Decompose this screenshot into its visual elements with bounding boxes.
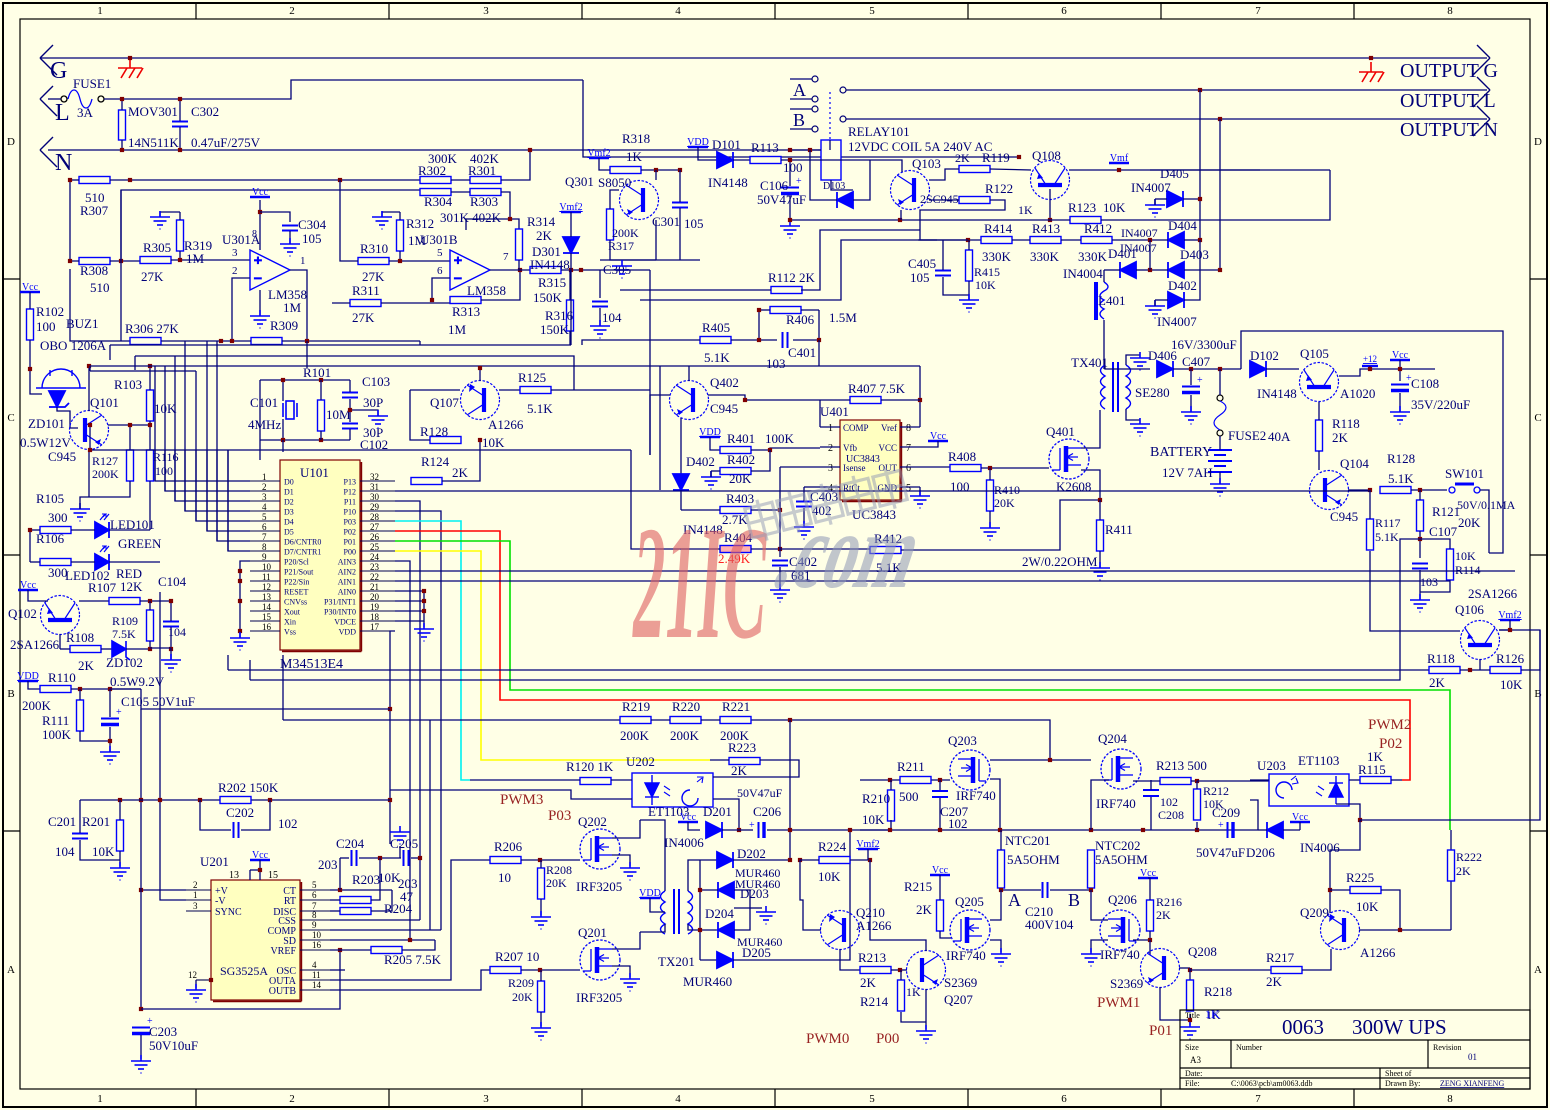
pin 29 U101 P10: [360, 510, 395, 512]
wire U101 D1: [165, 450, 250, 491]
svg-text:C108: C108: [1411, 376, 1439, 391]
wire C305 down: [599, 308, 601, 326]
wire switch B output = OUTPUT N: [846, 118, 1487, 120]
wire R112 left: [620, 289, 771, 291]
wire R410 top: [989, 468, 991, 480]
resistor R109: [147, 610, 154, 641]
capacitor C301: [672, 203, 688, 208]
svg-text:D7/CNTR1: D7/CNTR1: [284, 548, 321, 557]
wire to ground: [170, 648, 172, 660]
diode D201: [706, 822, 722, 838]
svg-text:Q203: Q203: [948, 733, 977, 748]
wire R222: [1450, 881, 1452, 930]
wire R213 right: [1191, 780, 1197, 782]
svg-text:R115: R115: [1358, 762, 1386, 777]
svg-text:21: 21: [370, 582, 379, 592]
svg-text:27K: 27K: [141, 269, 164, 284]
svg-text:R312: R312: [406, 216, 434, 231]
ground R208: [531, 911, 551, 929]
wire D103 anode: [810, 150, 837, 200]
wire rail y820: [1360, 630, 1540, 820]
wire Q301 collector: [655, 170, 657, 180]
wire bus risers above U101: [154, 366, 156, 481]
wire R312 gnd link: [382, 212, 400, 217]
resistor R214: [898, 980, 905, 1011]
junction dots: [1189, 367, 1222, 371]
wire R125 out: [551, 389, 650, 391]
svg-text:10M: 10M: [326, 407, 351, 422]
wire U301B inverting: [432, 278, 450, 300]
svg-text:B: B: [793, 110, 805, 130]
wire R118-R126: [1460, 669, 1490, 671]
wire R103 bottom: [149, 421, 151, 450]
resistor R401: [720, 447, 751, 454]
wire U203 right to R115: [1349, 779, 1360, 781]
junction dots: [698, 888, 702, 932]
wire VDD pin17: [390, 631, 395, 844]
wire U101 D0: [155, 450, 250, 481]
transistor Q210: [821, 911, 860, 950]
svg-text:5: 5: [312, 880, 317, 890]
MOSFET Q205: [950, 910, 990, 950]
wire R204 up: [371, 890, 392, 911]
pin 5 U101 D4: [250, 520, 280, 522]
ground U201 pin12: [186, 984, 206, 1002]
resistor R213b: [1160, 778, 1191, 785]
wire C204 into CT: [339, 858, 341, 890]
svg-text:Q103: Q103: [912, 156, 941, 171]
wire D205 anode lead: [700, 959, 717, 961]
wire +V to C203 rail: [141, 889, 186, 891]
svg-text:AIN3: AIN3: [338, 558, 356, 567]
svg-text:12VDC COIL 5A 240V AC: 12VDC COIL 5A 240V AC: [848, 139, 992, 154]
capacitor C202: [234, 822, 239, 838]
svg-text:10K: 10K: [1500, 677, 1523, 692]
svg-text:D4: D4: [284, 518, 294, 527]
wire crystal bottom: [282, 419, 284, 440]
wire U101 D5: [207, 450, 250, 531]
svg-text:Q202: Q202: [578, 814, 607, 829]
junction dots: [281, 378, 352, 442]
svg-text:32: 32: [370, 472, 379, 482]
wire Q102 to R107: [79, 600, 109, 602]
wire R403 right: [751, 509, 780, 511]
svg-text:R402: R402: [727, 452, 755, 467]
svg-text:R415: R415: [974, 265, 1000, 279]
wire Q210 to R213: [840, 949, 860, 970]
wire VDD rail right: [141, 689, 390, 709]
junction dots: [120, 97, 124, 152]
resistor R410: [987, 480, 994, 511]
wire U401 pin5 GND: [919, 487, 921, 496]
wire osc to U101: [259, 380, 261, 460]
svg-text:IN4148: IN4148: [708, 175, 748, 190]
wire Q201 source: [612, 966, 630, 977]
wire R121 top: [1419, 490, 1421, 500]
ground under R415: [959, 294, 979, 312]
wire TX201 right top: [688, 860, 700, 891]
svg-text:10K: 10K: [482, 435, 505, 450]
wire Q203 drain: [990, 779, 1000, 830]
wire R312 bottom: [399, 251, 401, 261]
wire U301B output: [490, 269, 530, 271]
ground under C402: [770, 584, 790, 602]
wire R101 bottom: [320, 431, 322, 440]
svg-text:6: 6: [906, 463, 911, 474]
resistor R120: [580, 778, 611, 785]
svg-text:Isense: Isense: [843, 463, 866, 473]
wire osc bottom rail: [260, 439, 350, 441]
resistor R216: [1147, 900, 1154, 931]
svg-text:400V104: 400V104: [1025, 917, 1074, 932]
transistor Q102: [41, 596, 80, 635]
wire rail y455 to Q402: [650, 395, 670, 455]
svg-text:P11: P11: [344, 498, 356, 507]
wire R308 to R305: [110, 260, 140, 262]
resistor R406: [770, 307, 801, 314]
wire R407 right: [881, 399, 920, 401]
wire U101 D3: [185, 450, 250, 511]
svg-text:2K: 2K: [1156, 908, 1171, 922]
svg-text:PWM3: PWM3: [500, 792, 543, 808]
resistor R206: [490, 857, 521, 864]
svg-text:C203: C203: [149, 1024, 177, 1039]
pin 7 U101 D6/CNTR0: [250, 540, 280, 542]
resistor R218: [1187, 980, 1194, 1011]
ground Q206: [1081, 948, 1101, 966]
junction dots: [788, 148, 812, 152]
svg-text:R315: R315: [538, 275, 566, 290]
wire Vcc to R215: [939, 875, 941, 900]
wire R406 left: [759, 309, 770, 311]
svg-text:100: 100: [155, 464, 173, 478]
pin 7 U201 DISC: [300, 910, 330, 912]
svg-text:6: 6: [312, 890, 317, 900]
wire Vcc to R216: [1148, 878, 1150, 900]
svg-text:20: 20: [370, 592, 380, 602]
svg-text:R122: R122: [985, 181, 1013, 196]
svg-text:D5: D5: [284, 528, 294, 537]
svg-text:A: A: [793, 80, 806, 100]
svg-text:C105 50V1uF: C105 50V1uF: [121, 694, 195, 709]
svg-text:P02: P02: [344, 528, 356, 537]
svg-text:R119: R119: [982, 150, 1010, 165]
wire Vmf2 stub: [867, 849, 869, 860]
wire COMP pin: [330, 929, 441, 931]
svg-text:2K: 2K: [916, 902, 933, 917]
wire Q206 source gnd: [1091, 940, 1108, 952]
wire battery top: [1219, 436, 1221, 450]
resistor R202: [220, 797, 251, 804]
wire net G: [40, 57, 1487, 59]
wire R406/R405 left link: [758, 310, 760, 340]
svg-text:R406: R406: [786, 312, 815, 327]
wire C407 top: [1190, 369, 1192, 385]
svg-text:1M: 1M: [186, 251, 205, 266]
svg-text:+: +: [796, 176, 802, 187]
wire Q402 to U401 pin1 row: [708, 395, 820, 400]
svg-text:R307: R307: [80, 203, 109, 218]
resistor R201: [117, 820, 124, 851]
resistor R312: [397, 220, 404, 251]
svg-text:R213 500: R213 500: [1156, 758, 1207, 773]
junction dots: [966, 238, 1152, 272]
wire R317 top: [609, 200, 611, 209]
svg-text:D204: D204: [705, 906, 734, 921]
wire R303 to opamp power: [466, 219, 519, 230]
junction dots: [848, 828, 1199, 832]
svg-text:VDCE: VDCE: [334, 618, 356, 627]
capacitor C210 bridge: [1001, 889, 1041, 891]
wire PWM3/P03 line: [390, 790, 620, 799]
svg-text:C405: C405: [908, 256, 936, 271]
wire C107 bottom: [1419, 570, 1421, 600]
svg-text:R305: R305: [143, 240, 171, 255]
wire R302-R301: [451, 179, 470, 181]
wire R124 to R128 node: [442, 440, 480, 481]
svg-text:7: 7: [262, 532, 267, 542]
wire D203: [700, 889, 718, 891]
pin 8 U201 CSS: [300, 919, 330, 921]
wire relay top: [829, 140, 831, 150]
svg-text:301K 402K: 301K 402K: [440, 210, 502, 225]
svg-text:IN4007: IN4007: [1157, 314, 1197, 329]
wire Q106 to Vmf2 node: [1499, 629, 1510, 631]
wire R109 bottom: [149, 641, 151, 648]
svg-text:GREEN: GREEN: [118, 536, 162, 551]
resistor R402: [720, 468, 751, 475]
earth on G line (left): [118, 58, 143, 78]
buzzer BUZ1: [36, 369, 86, 388]
wire x141 vertical: [140, 709, 142, 1009]
resistor R412b: [870, 547, 901, 554]
svg-text:IN4148: IN4148: [1257, 386, 1297, 401]
ground Q202: [620, 862, 640, 880]
svg-text:100: 100: [36, 319, 56, 334]
wire R120 to U202 pin1: [611, 779, 632, 781]
wire R311 lead: [332, 302, 350, 304]
wire R221 to gate junction: [751, 720, 1050, 760]
wire R106 left: [30, 529, 40, 531]
wire bottom rail to VREF: [141, 950, 340, 1009]
svg-text:C101: C101: [250, 395, 278, 410]
wire TX201 left top: [640, 820, 665, 891]
svg-text:R225: R225: [1346, 870, 1374, 885]
svg-text:C208: C208: [1158, 808, 1184, 822]
svg-text:R411: R411: [1105, 522, 1133, 537]
LED LED101: [95, 514, 109, 538]
diode D402 (IN4148): [673, 474, 689, 490]
wire R216 node down: [1149, 940, 1151, 955]
svg-text:C201: C201: [48, 814, 76, 829]
wire U401 right pin 5: [900, 486, 920, 488]
svg-text:510: 510: [90, 280, 110, 295]
svg-text:20K: 20K: [1458, 515, 1481, 530]
resistor R317: [607, 209, 614, 240]
colored wire P03 cyan: [395, 521, 470, 780]
capacitor C203: [132, 1028, 150, 1034]
svg-text:PWM1: PWM1: [1097, 995, 1140, 1011]
wire Q101 emitter down: [88, 449, 90, 497]
wire rail y830: [860, 829, 1258, 831]
wire R201 bottom: [119, 851, 121, 866]
wire ZD101 to Q101 base: [57, 407, 78, 428]
svg-text:OUTPUT N: OUTPUT N: [1400, 119, 1498, 141]
wire LED102 out: [109, 561, 160, 563]
wire R224 node to Q210 base: [800, 860, 821, 930]
svg-text:4MHz: 4MHz: [248, 417, 281, 432]
wire R312 top: [399, 212, 401, 220]
wire rectifier left rail: [699, 860, 701, 960]
transformer TX201: [661, 889, 693, 934]
wire C202 right: [241, 800, 270, 830]
svg-text:COMP: COMP: [843, 423, 869, 433]
wire Q204 source: [1091, 780, 1109, 830]
transistor Q301: [620, 181, 659, 220]
wire R408 to Q401 gate: [981, 467, 1049, 469]
svg-text:R405: R405: [702, 320, 730, 335]
svg-text:N: N: [55, 150, 72, 176]
svg-text:2K: 2K: [731, 763, 748, 778]
svg-text:R222: R222: [1456, 850, 1482, 864]
svg-text:6: 6: [1061, 5, 1067, 17]
wire U301A inverting input: [232, 278, 250, 341]
MOSFET Q202: [580, 829, 620, 869]
svg-text:27: 27: [370, 522, 380, 532]
wire Vmf2 stub: [1509, 620, 1511, 630]
wire FUSE2 top: [1219, 369, 1221, 395]
svg-text:D402: D402: [1168, 278, 1197, 293]
pin 22 U101 AIN1: [360, 580, 395, 582]
wire C201 bottom: [80, 840, 120, 860]
capacitor C302: [172, 122, 188, 127]
svg-text:4: 4: [675, 1093, 681, 1105]
wire left column: [70, 180, 79, 261]
wire D405 cathode: [1183, 198, 1200, 200]
svg-text:150K: 150K: [533, 290, 563, 305]
svg-text:C206: C206: [753, 804, 782, 819]
pin 6 U201 RT: [300, 899, 330, 901]
wire U301A pin4 ground: [259, 290, 261, 316]
svg-text:P13: P13: [344, 478, 356, 487]
svg-text:C209: C209: [1212, 805, 1240, 820]
junction dots: [219, 339, 309, 343]
ground U101 Vss: [230, 632, 250, 650]
svg-text:+12: +12: [1363, 354, 1377, 364]
wire -V vertical: [160, 592, 186, 900]
wire D301 bottom: [570, 253, 572, 270]
wire D404 to node: [1184, 239, 1200, 241]
resistor R219: [620, 717, 651, 724]
svg-text:S8050: S8050: [598, 175, 631, 190]
svg-text:A: A: [7, 964, 15, 976]
wire Q208 emitter: [1160, 987, 1190, 1020]
pin 30 U101 P11: [360, 500, 395, 502]
svg-text:330K: 330K: [1078, 249, 1108, 264]
wire Q207 collector up: [870, 860, 926, 951]
wire C401 right: [793, 339, 819, 341]
capacitor C407: [1182, 387, 1200, 393]
svg-text:C104: C104: [158, 574, 187, 589]
svg-text:P31/INT1: P31/INT1: [324, 598, 356, 607]
svg-text:IN4007: IN4007: [1121, 226, 1158, 240]
resistor R403: [720, 507, 751, 514]
svg-text:R309: R309: [270, 318, 298, 333]
wire R404 left: [690, 548, 720, 550]
resistor R412: [1081, 237, 1112, 244]
svg-text:Q107: Q107: [430, 395, 459, 410]
svg-text:8: 8: [252, 229, 257, 240]
wire CSS pin: [330, 919, 420, 921]
svg-text:Vref: Vref: [881, 423, 897, 433]
svg-text:7: 7: [1255, 1093, 1261, 1105]
resistor R107: [109, 598, 140, 605]
wire R212 bottom: [1196, 822, 1198, 830]
colored wire P02 red: [395, 531, 1410, 780]
diode D402: [1168, 292, 1184, 308]
wire Q401 source: [1081, 470, 1100, 499]
capacitor C205: [404, 850, 409, 866]
wire U202 pin2 from P03: [620, 798, 632, 800]
svg-text:R410: R410: [994, 483, 1020, 497]
wire Q207 emitter: [925, 989, 927, 1029]
transistor Q402: [670, 381, 709, 420]
pin 4 U201 OSC: [300, 969, 330, 971]
svg-text:R211: R211: [897, 759, 925, 774]
transistor Q101: [70, 411, 109, 450]
svg-text:40A: 40A: [1268, 429, 1291, 444]
junction dots: [569, 268, 583, 272]
wire TX201 right bottom: [688, 924, 700, 930]
svg-text:R208: R208: [546, 863, 572, 877]
svg-text:Q402: Q402: [710, 375, 739, 390]
wire Q205 source: [990, 940, 1001, 952]
resistor R118a: [1316, 420, 1323, 451]
svg-text:R407 7.5K: R407 7.5K: [848, 381, 906, 396]
svg-text:D1: D1: [284, 488, 294, 497]
input arrow L: [40, 86, 57, 116]
wire U401 pin8 Vref column: [919, 366, 921, 427]
wire rail to D206: [1258, 829, 1267, 831]
capacitor C402: [779, 510, 781, 557]
ground under C105: [100, 746, 120, 764]
resistor R101: [318, 400, 325, 431]
svg-text:27K: 27K: [352, 310, 375, 325]
wire ZD102 out: [126, 648, 150, 650]
svg-text:7.5K: 7.5K: [112, 627, 136, 641]
capacitor C202 loop: [200, 800, 231, 830]
junction dots: [757, 308, 821, 342]
svg-text:C: C: [7, 412, 14, 424]
wire mains sense y190: [121, 190, 420, 261]
svg-text:300: 300: [48, 510, 68, 525]
wire R210 bottom: [890, 820, 892, 830]
wire pin12 to ground: [195, 980, 197, 988]
wire yellow to R223: [710, 759, 729, 761]
wire L401 bottom: [1103, 320, 1105, 369]
wire node: [150, 647, 171, 649]
svg-text:11: 11: [312, 970, 321, 980]
pin 10 U201 SD: [300, 939, 330, 941]
wire Q208 collector: [1179, 967, 1190, 969]
svg-text:U202: U202: [626, 754, 655, 769]
wire R407 to pin1: [819, 400, 821, 427]
wire Q104 emitter to R128: [1348, 489, 1370, 491]
wire R209 bottom: [540, 1012, 542, 1026]
svg-text:R105: R105: [36, 491, 64, 506]
wire output N branch down: [1219, 119, 1221, 270]
wire R114 top: [1420, 539, 1450, 549]
